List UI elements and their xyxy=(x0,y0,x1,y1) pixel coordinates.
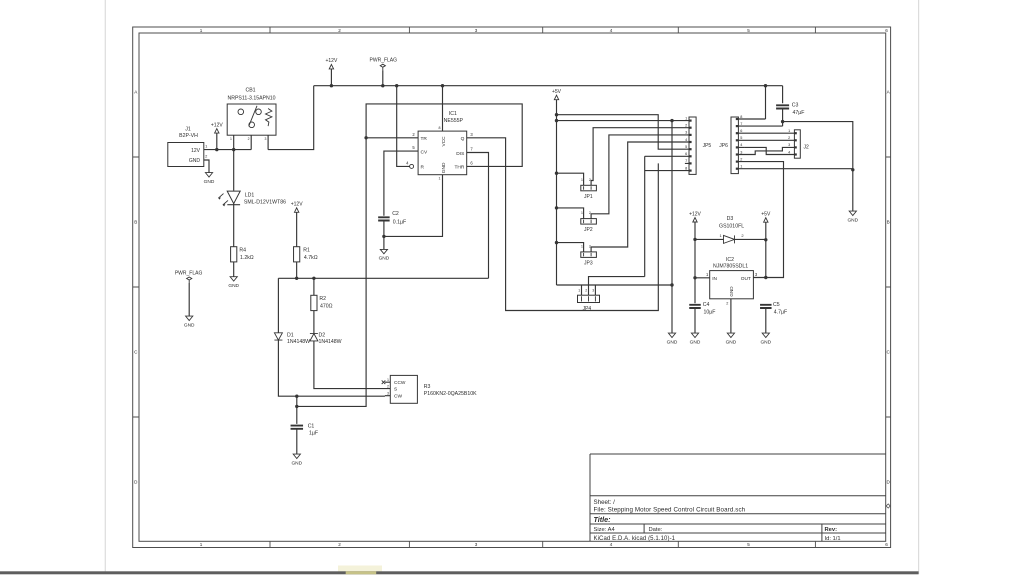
svg-text:GND: GND xyxy=(690,339,701,345)
svg-text:B: B xyxy=(887,220,890,225)
svg-text:5: 5 xyxy=(740,136,742,140)
svg-text:3: 3 xyxy=(475,542,478,547)
svg-text:+12V: +12V xyxy=(291,202,303,208)
svg-text:SML-D12V1WT86: SML-D12V1WT86 xyxy=(244,199,286,205)
svg-text:1: 1 xyxy=(788,129,790,133)
svg-text:JP2: JP2 xyxy=(584,227,593,233)
svg-text:4: 4 xyxy=(610,28,613,33)
svg-text:4: 4 xyxy=(610,542,613,547)
svg-text:1N4148W: 1N4148W xyxy=(319,339,342,345)
svg-text:8: 8 xyxy=(740,115,742,119)
svg-text:8: 8 xyxy=(439,126,441,130)
svg-text:1: 1 xyxy=(581,211,583,215)
svg-text:KiCad E.D.A. kicad (5.1.10)-1: KiCad E.D.A. kicad (5.1.10)-1 xyxy=(594,536,676,542)
svg-text:B2P-VH: B2P-VH xyxy=(179,133,198,139)
svg-text:VCC: VCC xyxy=(441,136,447,147)
svg-text:6: 6 xyxy=(740,129,742,133)
svg-text:R2: R2 xyxy=(319,296,326,302)
svg-text:2: 2 xyxy=(338,542,341,547)
svg-text:Id: 1/1: Id: 1/1 xyxy=(825,536,841,542)
svg-text:2: 2 xyxy=(685,124,687,128)
svg-text:1: 1 xyxy=(200,542,203,547)
svg-text:2: 2 xyxy=(589,211,591,215)
svg-text:C2: C2 xyxy=(392,211,399,217)
svg-text:JP1: JP1 xyxy=(584,194,593,200)
svg-text:PWR_FLAG: PWR_FLAG xyxy=(175,270,203,276)
svg-text:C5: C5 xyxy=(773,302,780,308)
svg-text:GND: GND xyxy=(189,158,201,164)
svg-text:PWR_FLAG: PWR_FLAG xyxy=(370,57,398,63)
svg-text:4: 4 xyxy=(788,150,790,154)
svg-text:5: 5 xyxy=(685,145,687,149)
svg-text:CW: CW xyxy=(394,394,402,400)
svg-text:IN: IN xyxy=(712,276,717,282)
svg-text:JP6: JP6 xyxy=(719,143,728,149)
svg-text:3: 3 xyxy=(685,131,687,135)
svg-text:GS1010FL: GS1010FL xyxy=(719,224,744,230)
svg-text:NE555P: NE555P xyxy=(444,118,464,124)
svg-text:GND: GND xyxy=(228,283,239,289)
svg-text:OUT: OUT xyxy=(741,276,751,282)
svg-text:GND: GND xyxy=(184,322,195,328)
svg-text:0.1µF: 0.1µF xyxy=(393,219,406,225)
svg-text:1: 1 xyxy=(578,289,580,293)
svg-text:1: 1 xyxy=(439,177,441,181)
svg-text:GND: GND xyxy=(726,339,737,345)
svg-text:3: 3 xyxy=(740,150,742,154)
svg-text:2: 2 xyxy=(589,244,591,248)
svg-text:5: 5 xyxy=(747,28,750,33)
svg-text:GND: GND xyxy=(441,162,447,173)
svg-text:+5V: +5V xyxy=(552,89,562,95)
svg-text:+12V: +12V xyxy=(211,122,223,128)
svg-text:5: 5 xyxy=(747,542,750,547)
svg-text:2: 2 xyxy=(740,157,742,161)
svg-text:Title:: Title: xyxy=(594,515,612,524)
svg-text:CB1: CB1 xyxy=(245,88,255,94)
svg-text:1: 1 xyxy=(581,244,583,248)
svg-text:TR: TR xyxy=(421,136,428,142)
svg-text:Size: A4: Size: A4 xyxy=(594,527,616,533)
svg-text:CCW: CCW xyxy=(394,380,406,386)
svg-text:3: 3 xyxy=(592,289,594,293)
svg-text:Date:: Date: xyxy=(649,527,663,533)
svg-text:2: 2 xyxy=(726,302,728,306)
svg-text:1: 1 xyxy=(581,178,583,182)
svg-text:C3: C3 xyxy=(792,102,799,108)
svg-text:D2: D2 xyxy=(319,333,326,339)
svg-text:J2: J2 xyxy=(804,145,810,151)
svg-text:GND: GND xyxy=(847,217,858,223)
svg-text:JP3: JP3 xyxy=(584,261,593,267)
svg-text:GND: GND xyxy=(379,256,390,262)
svg-text:3: 3 xyxy=(475,28,478,33)
svg-text:1: 1 xyxy=(387,378,389,382)
svg-text:2: 2 xyxy=(338,28,341,33)
svg-text:2: 2 xyxy=(248,137,250,141)
svg-text:1: 1 xyxy=(685,116,687,120)
svg-text:D3: D3 xyxy=(727,216,734,222)
svg-text:3: 3 xyxy=(264,137,266,141)
svg-text:4.7µF: 4.7µF xyxy=(774,309,787,315)
svg-text:6: 6 xyxy=(885,542,888,547)
svg-text:CV: CV xyxy=(421,149,428,155)
svg-text:12V: 12V xyxy=(191,148,201,154)
svg-text:LD1: LD1 xyxy=(245,193,255,199)
svg-text:470Ω: 470Ω xyxy=(320,303,333,309)
svg-text:B: B xyxy=(134,220,137,225)
svg-text:1: 1 xyxy=(200,28,203,33)
svg-text:2: 2 xyxy=(585,289,587,293)
svg-text:GND: GND xyxy=(291,460,302,466)
svg-text:1: 1 xyxy=(740,165,742,169)
svg-text:JP5: JP5 xyxy=(703,143,712,149)
svg-text:R3: R3 xyxy=(424,384,431,390)
svg-text:IC1: IC1 xyxy=(449,111,457,117)
svg-text:THR: THR xyxy=(454,165,464,171)
svg-text:3: 3 xyxy=(788,143,790,147)
svg-text:File: Stepping Motor Speed Con: File: Stepping Motor Speed Control Circu… xyxy=(594,506,746,513)
svg-text:GND: GND xyxy=(667,339,678,345)
svg-text:8: 8 xyxy=(685,166,687,170)
svg-text:Rev:: Rev: xyxy=(825,527,838,533)
svg-text:2: 2 xyxy=(387,384,389,388)
svg-text:4.7kΩ: 4.7kΩ xyxy=(304,255,318,261)
svg-text:D1: D1 xyxy=(287,333,294,339)
svg-text:J1: J1 xyxy=(185,127,191,133)
svg-text:C4: C4 xyxy=(703,302,710,308)
svg-text:3: 3 xyxy=(387,391,389,395)
svg-text:GND: GND xyxy=(760,339,771,345)
svg-text:47µF: 47µF xyxy=(793,110,805,116)
svg-text:1N4148W: 1N4148W xyxy=(287,339,310,345)
svg-text:NJM7805SDL1: NJM7805SDL1 xyxy=(713,263,748,269)
svg-text:2: 2 xyxy=(788,136,790,140)
svg-text:Q: Q xyxy=(461,136,465,142)
svg-text:JP4: JP4 xyxy=(583,306,592,312)
svg-text:4: 4 xyxy=(740,143,742,147)
svg-text:R: R xyxy=(421,165,425,171)
svg-text:+5V: +5V xyxy=(761,212,771,218)
svg-text:4: 4 xyxy=(685,138,687,142)
svg-text:10µF: 10µF xyxy=(704,309,716,315)
svg-text:S: S xyxy=(394,387,397,393)
svg-text:1: 1 xyxy=(230,137,232,141)
svg-text:7: 7 xyxy=(740,122,742,126)
svg-text:+12V: +12V xyxy=(689,211,701,217)
svg-text:7: 7 xyxy=(685,159,687,163)
svg-text:1µF: 1µF xyxy=(309,430,318,436)
svg-text:GND: GND xyxy=(204,179,215,185)
svg-text:DIS: DIS xyxy=(456,151,464,157)
svg-text:R1: R1 xyxy=(303,247,310,253)
svg-text:IC2: IC2 xyxy=(726,257,734,263)
svg-text:GND: GND xyxy=(729,286,734,297)
svg-text:C1: C1 xyxy=(308,424,315,430)
svg-text:R4: R4 xyxy=(239,247,246,253)
svg-text:NRPS11-3.15APN10: NRPS11-3.15APN10 xyxy=(227,95,275,101)
svg-text:6: 6 xyxy=(685,152,687,156)
svg-text:+12V: +12V xyxy=(325,58,337,64)
svg-text:1.2kΩ: 1.2kΩ xyxy=(240,255,254,261)
svg-text:6: 6 xyxy=(885,28,888,33)
svg-text:Sheet: /: Sheet: / xyxy=(594,499,616,506)
svg-text:2: 2 xyxy=(589,178,591,182)
svg-text:P160KN2-0QA25B10K: P160KN2-0QA25B10K xyxy=(424,391,477,397)
